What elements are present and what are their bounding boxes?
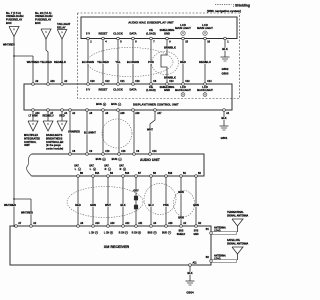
svg-text:BRN/BLK: BRN/BLK [164, 76, 176, 80]
svg-text:BLU/GRN: BLU/GRN [127, 60, 139, 64]
svg-text:(LOAD): (LOAD) [146, 88, 156, 92]
svg-text:BLU/WHT: BLU/WHT [84, 131, 96, 135]
svg-text:R: R [120, 168, 122, 171]
svg-text:C19: C19 [185, 80, 190, 83]
svg-text:BACKLIGHT: BACKLIGHT [175, 88, 191, 92]
svg-text:G502: G502 [222, 67, 229, 71]
svg-text:DATA: DATA [129, 88, 136, 92]
svg-text:BLK: BLK [120, 203, 125, 207]
svg-text:LCD: LCD [180, 85, 186, 89]
svg-text:MAIN LIGHT: MAIN LIGHT [175, 26, 191, 30]
svg-text:SHIELD: SHIELD [177, 234, 186, 236]
svg-text:AUDIO UNIT: AUDIO UNIT [140, 158, 161, 162]
svg-text:ANTENNA: ANTENNA [214, 254, 226, 257]
svg-text:FUSE/RELAY: FUSE/RELAY [35, 18, 51, 22]
svg-text:MAIN LIGHT: MAIN LIGHT [197, 26, 213, 30]
svg-text:PUR: PUR [148, 60, 154, 64]
svg-text:R: R [105, 168, 107, 171]
svg-text:BUS: BUS [96, 157, 102, 161]
svg-text:WHT/RED: WHT/RED [21, 211, 33, 215]
svg-text:(LOAD): (LOAD) [146, 32, 156, 36]
svg-text:YEL/RED: YEL/RED [97, 60, 109, 64]
svg-text:C13: C13 [169, 80, 174, 83]
svg-text:SHIELDING: SHIELDING [160, 28, 175, 32]
svg-text:WHT: WHT [105, 203, 111, 207]
svg-text:SHIELDING: SHIELDING [160, 85, 175, 89]
svg-text:5 V: 5 V [86, 32, 90, 36]
svg-text:BLU: BLU [148, 203, 153, 207]
svg-text:L CH: L CH [104, 233, 110, 235]
svg-text:SYS: SYS [194, 231, 199, 233]
svg-text:B13: B13 [125, 173, 130, 175]
svg-text:YEL/RED: YEL/RED [40, 60, 52, 64]
svg-text:C14: C14 [207, 80, 212, 83]
svg-text:RED/BLK: RED/BLK [54, 60, 66, 64]
svg-text:No. 7 (7.5 A): No. 7 (7.5 A) [6, 11, 21, 15]
svg-text:GRN: GRN [90, 203, 96, 207]
svg-text:C16: C16 [135, 80, 140, 83]
svg-text:LCD: LCD [202, 23, 208, 27]
svg-text:DISPLAY/TUNER CONTROL UNIT: DISPLAY/TUNER CONTROL UNIT [133, 103, 179, 107]
svg-text:A16: A16 [50, 80, 55, 83]
svg-text:GND: GND [164, 32, 170, 36]
svg-text:YEL: YEL [115, 60, 121, 64]
svg-text:SATELLITE: SATELLITE [227, 239, 240, 242]
svg-text:CONTROL: CONTROL [24, 141, 37, 144]
svg-text:No. 23 (7.5 A): No. 23 (7.5 A) [35, 11, 51, 15]
svg-text:SAT: SAT [119, 165, 124, 168]
svg-text:DASHLIGHTS: DASHLIGHTS [46, 134, 63, 137]
svg-text:CE: CE [149, 85, 153, 89]
svg-text:SAT: SAT [74, 165, 79, 168]
svg-text:SAT: SAT [89, 165, 94, 168]
svg-text:LEAD: LEAD [214, 230, 221, 233]
svg-text:BOX: BOX [35, 21, 41, 25]
svg-text:LCD: LCD [180, 23, 186, 27]
svg-text:CLOCK: CLOCK [113, 88, 123, 92]
svg-text:(With navigation system): (With navigation system) [207, 9, 241, 13]
svg-text:BLU/GRN: BLU/GRN [82, 60, 94, 64]
svg-text:WHT/RED: WHT/RED [4, 203, 16, 207]
svg-text:GND: GND [193, 234, 198, 236]
svg-text:SIGNAL ANTENNA: SIGNAL ANTENNA [227, 242, 249, 245]
svg-text:LCD: LCD [202, 85, 208, 89]
svg-text:SIGNAL ANTENNA: SIGNAL ANTENNA [227, 214, 249, 217]
svg-text:CLOCK: CLOCK [113, 32, 123, 36]
svg-text:control module): control module) [46, 148, 63, 151]
svg-text:BACKLIGHT: BACKLIGHT [197, 88, 213, 92]
svg-text:: Shielding: : Shielding [233, 3, 250, 7]
svg-text:BUS: BUS [179, 231, 184, 233]
svg-text:TAILLIGHT: TAILLIGHT [57, 22, 71, 26]
svg-text:R CH: R CH [132, 233, 138, 235]
svg-text:BLK: BLK [221, 116, 226, 120]
svg-text:C10: C10 [105, 151, 110, 153]
svg-text:B16: B16 [168, 173, 173, 175]
svg-text:RELAY: RELAY [57, 26, 66, 30]
svg-text:AUDIO H/AC SUBDISPLAY UNIT: AUDIO H/AC SUBDISPLAY UNIT [128, 21, 174, 25]
svg-text:(In the gauge: (In the gauge [46, 144, 61, 147]
svg-text:ANTENNA: ANTENNA [214, 226, 226, 229]
svg-text:C22: C22 [105, 80, 110, 83]
svg-text:BLK: BLK [222, 47, 228, 51]
svg-text:XM RECEIVER: XM RECEIVER [104, 245, 130, 249]
svg-text:WHT/RED: WHT/RED [3, 43, 15, 47]
svg-text:L CH: L CH [89, 233, 95, 235]
svg-text:BLK: BLK [187, 271, 192, 275]
svg-text:5 V: 5 V [86, 88, 90, 92]
svg-text:CE: CE [149, 28, 153, 32]
svg-text:C21: C21 [120, 80, 125, 83]
svg-text:UNDER-DASH: UNDER-DASH [6, 14, 24, 18]
svg-text:DATA: DATA [129, 32, 136, 36]
svg-text:BUS: BUS [162, 233, 167, 235]
svg-text:R CH: R CH [119, 233, 125, 235]
svg-text:GRN/RED: GRN/RED [68, 130, 80, 134]
svg-text:G503: G503 [222, 72, 229, 76]
svg-text:BUS: BUS [148, 233, 153, 235]
svg-text:RED/BLU: RED/BLU [199, 60, 211, 64]
svg-text:BUS: BUS [96, 102, 102, 106]
svg-text:BUS: BUS [111, 102, 117, 106]
svg-text:BRIGHTNESS: BRIGHTNESS [46, 137, 63, 140]
svg-text:MULTIPLEX: MULTIPLEX [24, 134, 38, 137]
svg-text:INTEGRATED: INTEGRATED [24, 137, 40, 140]
svg-text:FUSE/RELAY: FUSE/RELAY [6, 18, 22, 22]
svg-text:RED: RED [75, 203, 81, 207]
svg-text:RESET: RESET [99, 88, 108, 92]
svg-text:LEAD: LEAD [214, 258, 221, 261]
svg-text:SAT: SAT [104, 165, 109, 168]
svg-text:C20: C20 [90, 80, 95, 83]
svg-text:GND: GND [164, 88, 170, 92]
svg-text:RESET: RESET [99, 32, 108, 36]
svg-text:BUS: BUS [112, 157, 118, 161]
svg-text:UNDER-DASH: UNDER-DASH [35, 14, 53, 18]
svg-text:WHT: WHT [147, 128, 153, 132]
svg-text:GRY: GRY [133, 189, 139, 193]
svg-text:G501: G501 [221, 136, 228, 140]
svg-text:G504: G504 [186, 291, 194, 295]
svg-text:C16: C16 [121, 151, 126, 153]
svg-text:CONTROLLER: CONTROLLER [46, 141, 64, 144]
svg-text:TERRESTRIAL: TERRESTRIAL [227, 211, 244, 214]
svg-text:BRN/BLK: BRN/BLK [164, 46, 176, 50]
svg-text:PNK: PNK [163, 203, 169, 207]
svg-text:RED: RED [180, 60, 186, 64]
svg-text:BOX: BOX [6, 21, 12, 25]
svg-text:UNIT: UNIT [24, 144, 30, 147]
